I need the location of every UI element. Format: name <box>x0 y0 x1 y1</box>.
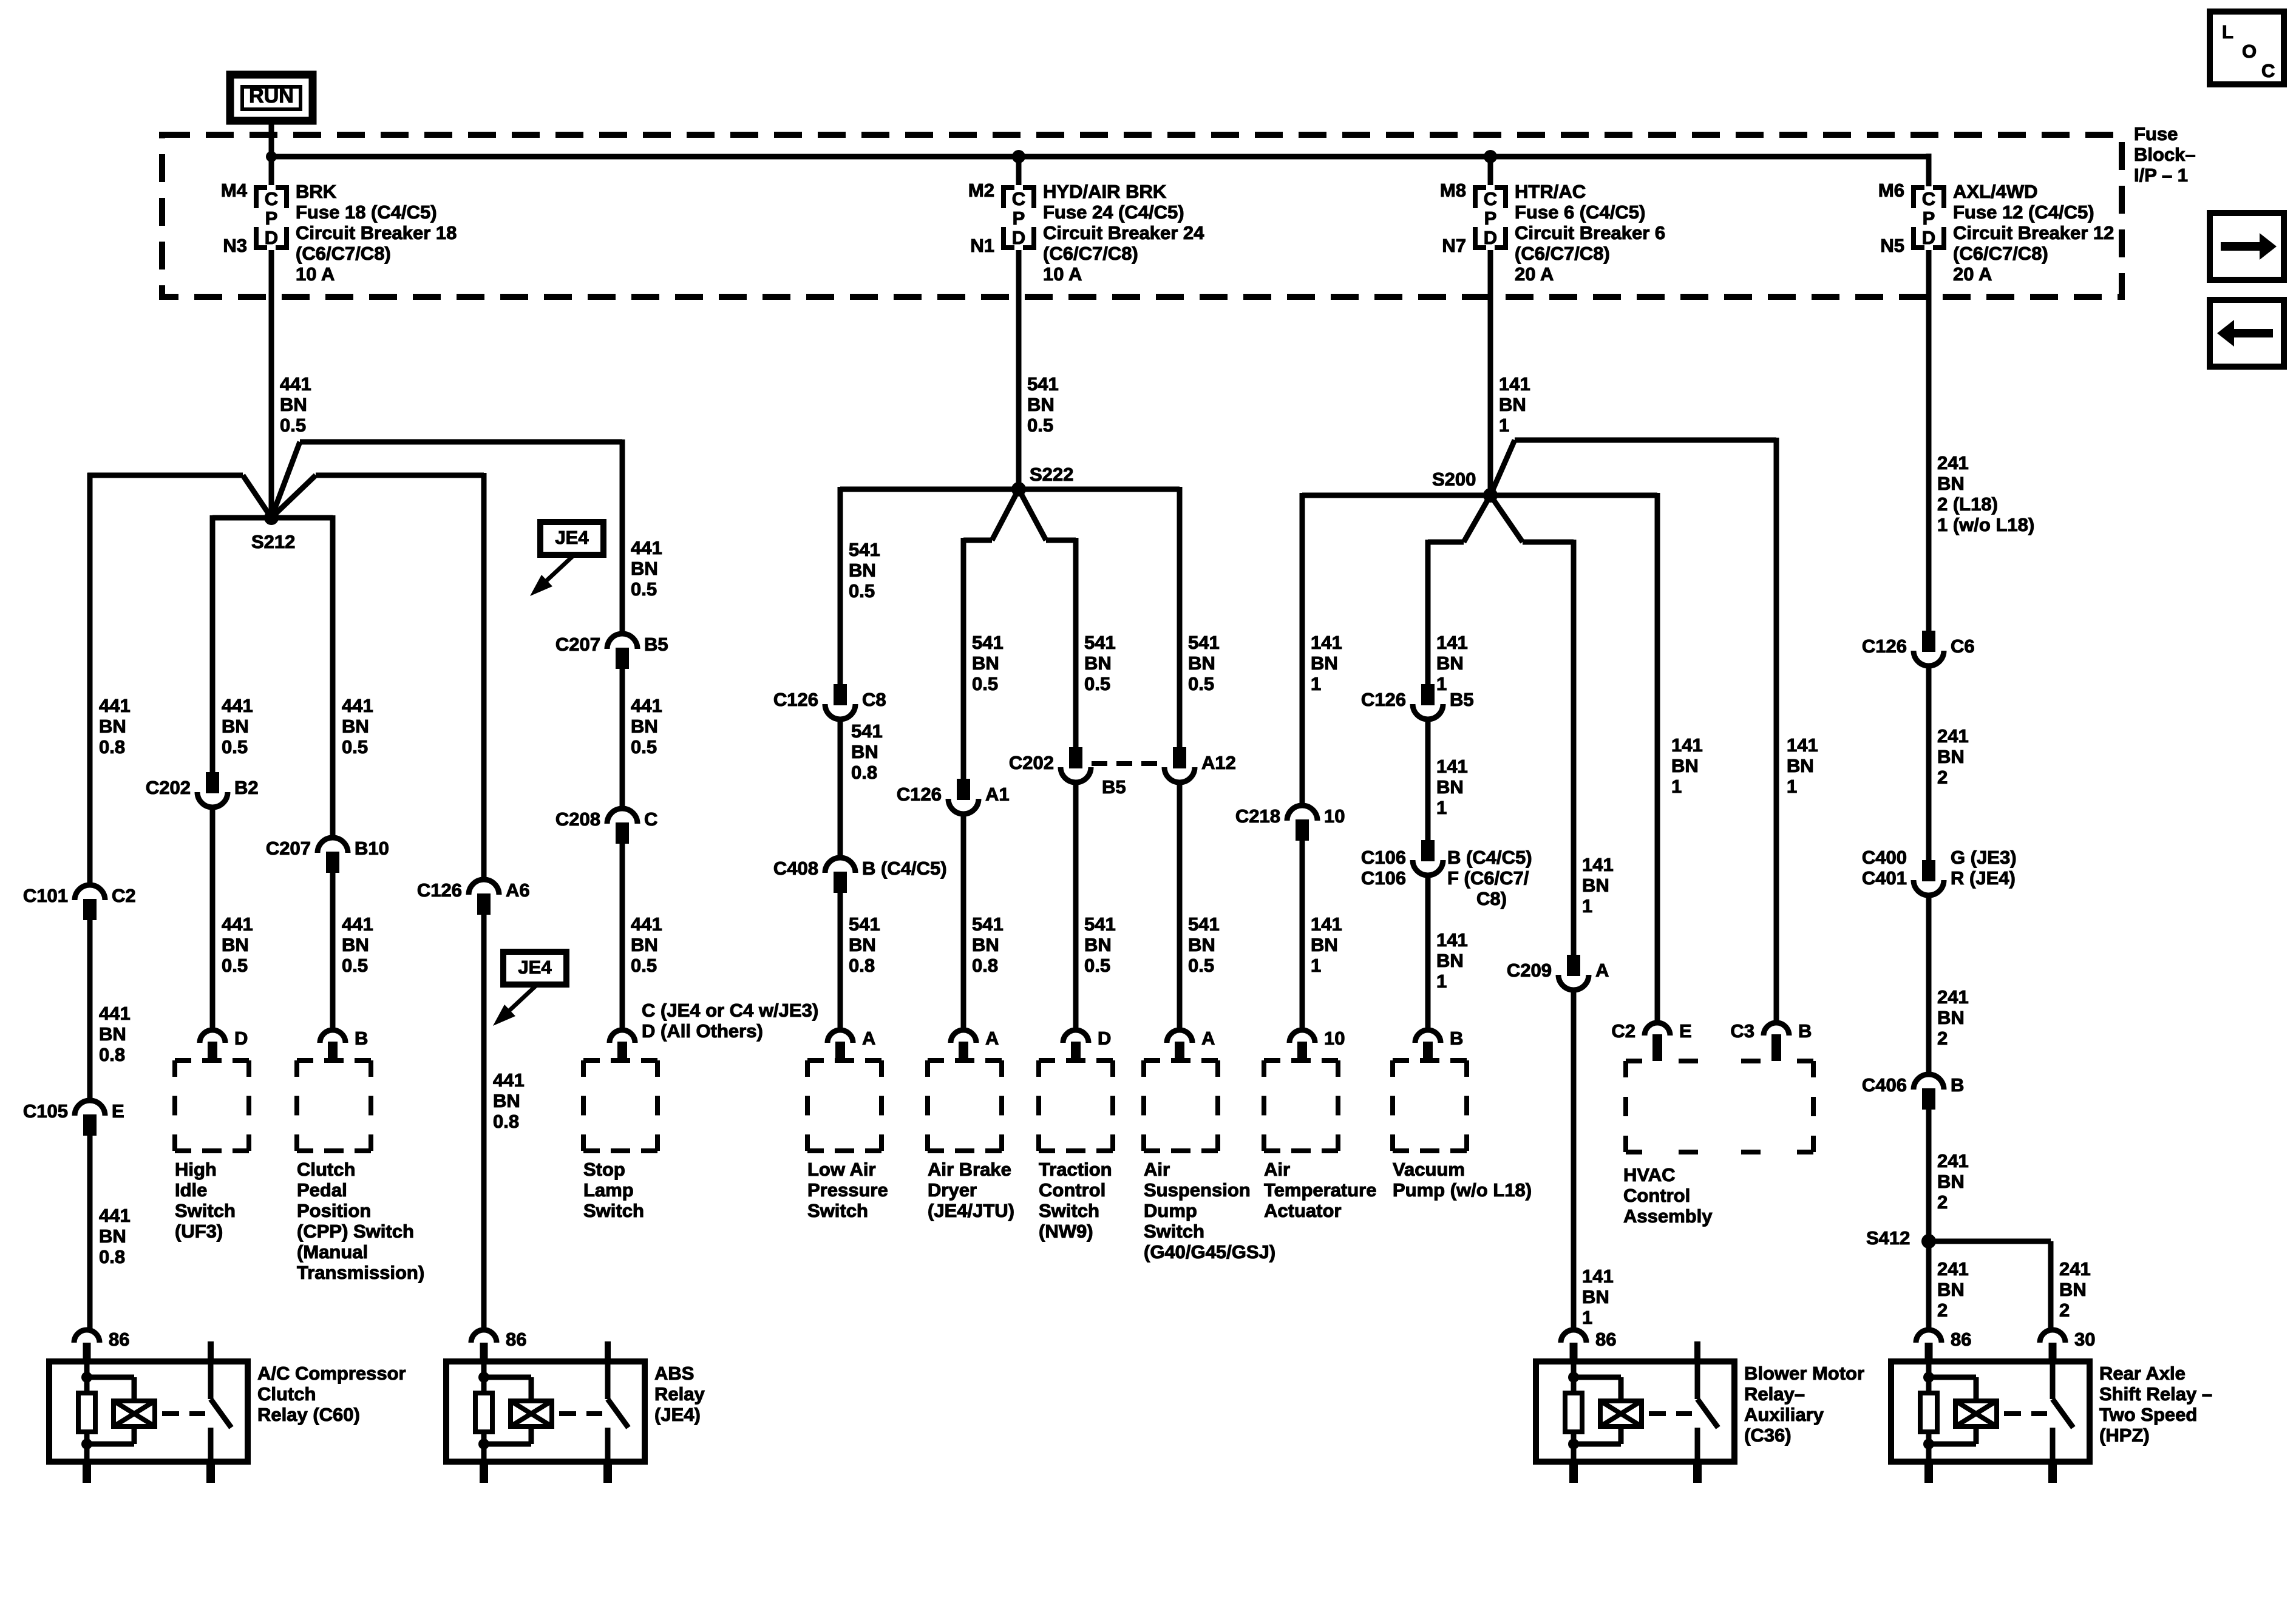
pin C/D of stop lamp switch <box>610 1030 635 1060</box>
svg-text:C101: C101 <box>23 885 68 906</box>
svg-text:Control: Control <box>1039 1179 1106 1201</box>
label S200 <box>1432 469 1476 490</box>
svg-text:M2: M2 <box>968 180 994 201</box>
svg-text:BN: BN <box>1027 394 1055 415</box>
svg-text:A1: A1 <box>985 784 1010 805</box>
svg-text:Block–: Block– <box>2134 144 2196 165</box>
svg-text:86: 86 <box>506 1329 526 1350</box>
svg-text:541: 541 <box>1188 914 1220 935</box>
Traction Control Switch dashed box <box>1039 1060 1113 1242</box>
svg-text:A6: A6 <box>506 880 530 901</box>
wire 141 BN 1 fuse6 to S200 <box>1488 259 1493 495</box>
svg-text:BN: BN <box>99 1023 126 1045</box>
svg-text:10 A: 10 A <box>1043 263 1082 285</box>
wire 441 BN 0.8 to C105 <box>87 920 93 1100</box>
svg-text:BN: BN <box>280 394 307 415</box>
splice S212 dot <box>264 510 279 525</box>
pin A of air suspension dump switch <box>1167 1028 1215 1060</box>
svg-text:BN: BN <box>1311 653 1338 674</box>
svg-text:Circuit Breaker 12: Circuit Breaker 12 <box>1953 222 2114 243</box>
svg-text:M6: M6 <box>1878 180 1904 201</box>
svg-text:C401: C401 <box>1862 867 1907 889</box>
svg-text:Switch: Switch <box>807 1200 868 1221</box>
svg-text:Lamp: Lamp <box>583 1179 634 1201</box>
svg-text:C218: C218 <box>1235 805 1280 827</box>
svg-text:1: 1 <box>1311 673 1321 694</box>
svg-text:JE4: JE4 <box>555 527 589 548</box>
svg-text:B: B <box>1798 1020 1812 1042</box>
svg-text:P: P <box>1923 208 1935 229</box>
svg-text:441: 441 <box>222 914 253 935</box>
svg-text:0.5: 0.5 <box>342 736 368 758</box>
relay Blower Motor Auxiliary (C36) <box>1536 1329 1864 1483</box>
label 141 BN 1 <box>1436 756 1468 818</box>
svg-text:Suspension: Suspension <box>1144 1179 1251 1201</box>
svg-text:141: 141 <box>1787 734 1818 756</box>
svg-text:BN: BN <box>1582 875 1609 896</box>
wire 141 BN 1 to air temp actuator <box>1300 841 1305 1030</box>
wire 241 BN 2 to S412 <box>1926 1110 1932 1241</box>
svg-text:141: 141 <box>1582 854 1614 875</box>
svg-text:541: 541 <box>1027 373 1059 395</box>
fuse block I/P dashed outline <box>162 135 2122 297</box>
Clutch Pedal Position switch dashed box <box>297 1060 424 1283</box>
svg-text:C: C <box>1484 188 1497 209</box>
svg-text:141: 141 <box>1499 373 1530 395</box>
label 141 BN 1 <box>1582 854 1614 917</box>
svg-text:C106: C106 <box>1361 867 1406 889</box>
svg-text:Fuse 6 (C4/C5): Fuse 6 (C4/C5) <box>1515 202 1645 223</box>
wire S412 branch to pin 30 <box>1929 1241 2051 1330</box>
S200 top horizontal to C3 branch <box>1515 438 1776 443</box>
label 541 BN 0.8 <box>851 720 883 783</box>
svg-text:BN: BN <box>493 1090 520 1111</box>
label 441 BN 0.5 <box>342 914 373 976</box>
svg-text:0.5: 0.5 <box>972 673 998 694</box>
svg-text:(C36): (C36) <box>1744 1425 1792 1446</box>
svg-text:541: 541 <box>849 539 880 560</box>
wire 541 BN 0.5 to A12 <box>1177 487 1183 747</box>
wire 141 BN 1 to C126 B5 <box>1425 540 1431 684</box>
wire 441 BN 0.5 to High Idle Switch <box>210 808 216 1030</box>
label S222 <box>1030 464 1073 485</box>
svg-text:Pressure: Pressure <box>807 1179 888 1201</box>
label 441 BN 0.8 <box>99 695 131 758</box>
wire 441 BN 0.5 to C207 B5 <box>620 439 625 633</box>
junction dot at HYD/AIR BRK fuse <box>1012 150 1025 163</box>
svg-text:P: P <box>265 208 278 229</box>
svg-text:0.5: 0.5 <box>222 955 248 976</box>
connector C400/C401 pins G/R <box>1862 847 2017 895</box>
svg-text:BN: BN <box>1671 755 1699 776</box>
svg-text:Clutch: Clutch <box>297 1159 355 1180</box>
svg-text:Transmission): Transmission) <box>297 1262 424 1283</box>
svg-text:L: L <box>2222 21 2233 42</box>
wire 241 BN 2 S412 to rear axle relay 86 <box>1926 1241 1932 1330</box>
svg-text:C202: C202 <box>1009 752 1054 773</box>
JE4 option tag for ABS wire <box>493 952 566 1026</box>
splice S222 dot <box>1011 482 1026 497</box>
svg-text:Rear Axle: Rear Axle <box>2099 1363 2186 1384</box>
wire 441 BN 0.5 to C207 B10 <box>330 515 336 837</box>
label 441 BN 0.5 <box>280 373 311 436</box>
S200 diagonal down-left <box>1464 495 1490 542</box>
svg-text:441: 441 <box>99 695 131 716</box>
svg-text:B5: B5 <box>1450 689 1474 710</box>
svg-text:C106: C106 <box>1361 847 1406 868</box>
svg-text:B: B <box>355 1028 368 1049</box>
svg-text:(C6/C7/C8): (C6/C7/C8) <box>1953 243 2048 264</box>
svg-text:141: 141 <box>1671 734 1703 756</box>
svg-text:BN: BN <box>631 934 658 955</box>
svg-text:Temperature: Temperature <box>1264 1179 1377 1201</box>
JE4 option tag for stop lamp wire <box>530 522 603 596</box>
wire 541 BN 0.5 to C126 A1 <box>961 538 966 779</box>
svg-text:N5: N5 <box>1880 235 1904 256</box>
label 441 BN 0.5 <box>342 695 373 758</box>
svg-text:C207: C207 <box>555 634 600 655</box>
connector C209 pin A <box>1507 955 1609 990</box>
pin D of High Idle Switch <box>200 1028 248 1060</box>
svg-text:2: 2 <box>1937 1192 1948 1213</box>
svg-text:Relay (C60): Relay (C60) <box>257 1404 360 1425</box>
svg-text:Fuse 18 (C4/C5): Fuse 18 (C4/C5) <box>296 202 437 223</box>
High Idle Switch dashed box <box>175 1060 249 1242</box>
S222 diagonal left <box>992 489 1019 540</box>
svg-text:B5: B5 <box>644 634 668 655</box>
S200 left horizontal to air temp branch <box>1302 493 1490 498</box>
svg-text:M4: M4 <box>221 180 248 201</box>
svg-text:Low Air: Low Air <box>807 1159 876 1180</box>
svg-text:1: 1 <box>1436 971 1447 992</box>
wire 441 BN 0.5 to C208 <box>620 669 625 808</box>
svg-text:BN: BN <box>2059 1279 2087 1300</box>
svg-text:A/C Compressor: A/C Compressor <box>257 1363 406 1384</box>
svg-text:Idle: Idle <box>175 1179 207 1201</box>
label 241 BN 2 <box>1937 725 1969 788</box>
connector C126 pin A1 <box>897 779 1010 814</box>
svg-text:C126: C126 <box>897 784 942 805</box>
label 541 BN 0.5 <box>972 632 1004 694</box>
S200 short right horizontal <box>1523 540 1574 545</box>
label 141 BN 1 <box>1499 373 1530 436</box>
label 541 BN 0.5 <box>1027 373 1059 436</box>
svg-text:Two Speed: Two Speed <box>2099 1404 2197 1425</box>
svg-text:241: 241 <box>1937 452 1969 473</box>
bus corner drop to AXL/4WD fuse <box>1926 154 1932 186</box>
junction dot at RUN feed <box>266 151 277 162</box>
wire 541 BN 0.8 to C408 <box>838 720 843 857</box>
svg-text:BN: BN <box>1937 1007 1965 1028</box>
wire 541 BN 0.5 to C126 C8 <box>838 487 843 684</box>
svg-text:BN: BN <box>1188 653 1215 674</box>
svg-text:C (JE4 or C4 w/JE3): C (JE4 or C4 w/JE3) <box>642 1000 818 1021</box>
svg-text:441: 441 <box>342 695 373 716</box>
pin B of HVAC assembly <box>1730 1020 1812 1061</box>
svg-text:Air Brake: Air Brake <box>928 1159 1011 1180</box>
svg-text:141: 141 <box>1582 1266 1614 1287</box>
Vacuum Pump dashed box <box>1393 1060 1532 1201</box>
svg-text:1: 1 <box>1436 797 1447 818</box>
svg-text:E: E <box>1679 1020 1692 1042</box>
svg-text:241: 241 <box>1937 1258 1969 1280</box>
svg-text:541: 541 <box>972 914 1004 935</box>
svg-text:(JE4/JTU): (JE4/JTU) <box>928 1200 1014 1221</box>
S200 diagonal down-right <box>1490 495 1523 542</box>
svg-text:86: 86 <box>109 1329 129 1350</box>
wire 441 BN 0.5 to stop lamp switch <box>620 844 625 1030</box>
svg-text:BN: BN <box>99 716 126 737</box>
svg-text:BN: BN <box>1311 934 1338 955</box>
svg-text:141: 141 <box>1436 756 1468 777</box>
connector C207 pin B5 <box>555 634 668 669</box>
svg-text:C126: C126 <box>773 689 818 710</box>
svg-text:B5: B5 <box>1102 776 1126 798</box>
svg-text:(HPZ): (HPZ) <box>2099 1425 2150 1446</box>
wire 141 BN 1 to vacuum pump <box>1425 876 1431 1030</box>
svg-text:BN: BN <box>1937 1279 1965 1300</box>
svg-text:441: 441 <box>493 1070 525 1091</box>
wire from RUN to bus <box>269 121 274 157</box>
connector C126 pin C6 <box>1862 631 1975 666</box>
relay Rear Axle Shift Two Speed (HPZ) <box>1891 1329 2212 1483</box>
svg-text:0.8: 0.8 <box>99 736 125 758</box>
connector C202 pin B2 <box>146 772 259 807</box>
pin E of HVAC assembly <box>1611 1020 1691 1061</box>
svg-text:441: 441 <box>222 695 253 716</box>
svg-text:D: D <box>1484 227 1497 248</box>
wire 141 BN 1 to C218 <box>1300 493 1305 805</box>
svg-text:0.5: 0.5 <box>1084 673 1110 694</box>
svg-text:Fuse 12 (C4/C5): Fuse 12 (C4/C5) <box>1953 202 2094 223</box>
label 241 BN 2 <box>1937 1258 1969 1321</box>
svg-text:10: 10 <box>1324 805 1345 827</box>
fuse/circuit breaker M2-N1 HYD/AIR BRK <box>968 157 1204 285</box>
svg-text:0.5: 0.5 <box>342 955 368 976</box>
svg-text:A: A <box>862 1028 875 1049</box>
label S412 <box>1866 1227 1910 1249</box>
connector C218 pin 10 <box>1235 805 1345 841</box>
svg-text:C: C <box>1922 188 1935 209</box>
label 441 BN 0.5 <box>222 914 253 976</box>
svg-text:N3: N3 <box>223 235 247 256</box>
svg-text:BN: BN <box>972 934 999 955</box>
svg-text:BN: BN <box>849 934 876 955</box>
connector C406 pin B <box>1862 1074 1965 1110</box>
svg-text:Relay: Relay <box>654 1383 705 1405</box>
svg-text:B2: B2 <box>234 777 259 798</box>
svg-text:0.5: 0.5 <box>631 736 657 758</box>
svg-text:Air: Air <box>1264 1159 1290 1180</box>
label 141 BN 1 <box>1436 632 1468 694</box>
svg-text:10: 10 <box>1324 1028 1345 1049</box>
svg-text:C207: C207 <box>266 838 311 859</box>
wire 441 BN 0.8 to A/C relay <box>87 1136 93 1330</box>
svg-text:141: 141 <box>1311 632 1342 653</box>
stop lamp pin names <box>642 1000 818 1042</box>
svg-text:541: 541 <box>1188 632 1220 653</box>
svg-text:0.8: 0.8 <box>851 762 877 783</box>
svg-text:241: 241 <box>2059 1258 2091 1280</box>
svg-text:B: B <box>1951 1074 1964 1096</box>
svg-text:C2: C2 <box>112 885 136 906</box>
svg-text:BN: BN <box>1436 653 1464 674</box>
connector C126 pin B5 <box>1361 684 1474 719</box>
svg-text:P: P <box>1013 208 1025 229</box>
svg-text:BN: BN <box>631 716 658 737</box>
wire 441 BN 0.5 to C202 B2 <box>210 515 216 772</box>
svg-text:1: 1 <box>1787 776 1797 797</box>
backward page arrow box <box>2210 300 2284 367</box>
connector C208 pin C <box>555 808 658 844</box>
svg-text:BN: BN <box>1188 934 1215 955</box>
label 441 BN 0.8 <box>99 1205 131 1267</box>
svg-text:BN: BN <box>972 653 999 674</box>
svg-text:Switch: Switch <box>583 1200 644 1221</box>
wire 441 BN 0.5 fuse18 to S212 <box>269 259 274 518</box>
svg-text:P: P <box>1484 208 1497 229</box>
svg-text:241: 241 <box>1937 725 1969 747</box>
svg-text:Control: Control <box>1623 1185 1690 1206</box>
label 441 BN 0.5 <box>222 695 253 758</box>
svg-text:Relay–: Relay– <box>1744 1383 1805 1405</box>
svg-text:BN: BN <box>222 716 249 737</box>
svg-text:86: 86 <box>1951 1329 1971 1350</box>
svg-text:Traction: Traction <box>1039 1159 1112 1180</box>
svg-text:D: D <box>234 1028 248 1049</box>
LOC locator box <box>2210 12 2284 84</box>
wire 541 BN 0.5 to traction control switch <box>1073 783 1079 1030</box>
svg-text:1: 1 <box>1582 1307 1592 1328</box>
svg-text:0.5: 0.5 <box>1027 415 1053 436</box>
dashed link C202 B5 to A12 <box>1092 761 1164 766</box>
svg-text:HVAC: HVAC <box>1623 1164 1676 1185</box>
svg-text:G (JE3): G (JE3) <box>1951 847 2017 868</box>
S212 bar <box>212 515 333 521</box>
svg-text:BN: BN <box>851 741 878 762</box>
svg-text:0.5: 0.5 <box>1188 955 1214 976</box>
fuse/circuit breaker M8-N7 HTR/AC <box>1440 157 1665 285</box>
label 441 BN 0.5 <box>631 914 662 976</box>
wire S212 far-left horizontal <box>87 473 243 478</box>
splice S412 dot <box>1921 1234 1936 1249</box>
svg-text:1: 1 <box>1499 415 1509 436</box>
connector C105 pin E <box>23 1100 124 1136</box>
svg-text:0.5: 0.5 <box>222 736 248 758</box>
connector C202 pin B5 <box>1009 747 1126 798</box>
svg-text:541: 541 <box>972 632 1004 653</box>
svg-text:BN: BN <box>1937 473 1965 494</box>
wire 141 BN 1 to HVAC C3 B <box>1774 438 1779 1023</box>
svg-text:D: D <box>1012 227 1025 248</box>
svg-text:Blower Motor: Blower Motor <box>1744 1363 1864 1384</box>
pin A of low air pressure switch <box>827 1028 875 1060</box>
svg-text:C2: C2 <box>1611 1020 1635 1042</box>
svg-text:(UF3): (UF3) <box>175 1221 223 1242</box>
pin D of traction control switch <box>1063 1028 1111 1060</box>
svg-text:0.5: 0.5 <box>849 580 875 602</box>
svg-text:S412: S412 <box>1866 1227 1910 1249</box>
fuse block name label <box>2134 123 2196 186</box>
wire 241 BN 2 to C400 <box>1926 666 1932 860</box>
svg-text:JE4: JE4 <box>518 957 552 978</box>
pin A of air brake dryer <box>951 1028 999 1060</box>
bus wire ignition feed <box>269 154 1929 160</box>
svg-text:D: D <box>1922 227 1935 248</box>
label 441 BN 0.8 <box>99 1003 131 1065</box>
svg-text:0.8: 0.8 <box>99 1246 125 1267</box>
svg-text:2: 2 <box>2059 1300 2070 1321</box>
svg-text:BN: BN <box>1084 934 1112 955</box>
svg-text:Clutch: Clutch <box>257 1383 316 1405</box>
svg-text:Circuit Breaker 24: Circuit Breaker 24 <box>1043 222 1204 243</box>
svg-text:Switch: Switch <box>1144 1221 1204 1242</box>
svg-text:C208: C208 <box>555 808 600 830</box>
S212 diagonal to A6 branch <box>271 475 316 518</box>
svg-text:N7: N7 <box>1442 235 1466 256</box>
label 541 BN 0.5 <box>1084 632 1116 694</box>
wire 141 BN 1 to blower relay <box>1571 991 1577 1330</box>
svg-text:441: 441 <box>631 695 662 716</box>
label 141 BN 1 <box>1671 734 1703 797</box>
connector C101 pin C2 <box>23 885 136 920</box>
label 541 BN 0.5 <box>1188 914 1220 976</box>
wire 141 BN 1 to C209 <box>1571 540 1577 955</box>
svg-text:HYD/AIR BRK: HYD/AIR BRK <box>1043 181 1167 202</box>
label 241 BN 2 (L18) 1 (w/o L18) <box>1937 452 2034 535</box>
svg-text:RUN: RUN <box>249 84 294 107</box>
label 541 BN 0.5 <box>849 539 880 602</box>
HVAC Control Assembly dashed box <box>1623 1061 1813 1227</box>
label 541 BN 0.8 <box>972 914 1004 976</box>
label 141 BN 1 <box>1787 734 1818 797</box>
svg-text:BN: BN <box>1787 755 1814 776</box>
svg-text:D: D <box>1098 1028 1111 1049</box>
S200 right horizontal to C2 branch <box>1490 493 1657 498</box>
svg-text:C: C <box>265 188 278 209</box>
connector C126 pin C8 <box>773 684 886 719</box>
svg-text:(C6/C7/C8): (C6/C7/C8) <box>296 243 391 264</box>
pin B of vacuum pump <box>1415 1028 1463 1060</box>
splice S200 dot <box>1483 488 1498 503</box>
svg-text:Fuse 24 (C4/C5): Fuse 24 (C4/C5) <box>1043 202 1184 223</box>
svg-text:241: 241 <box>1937 986 1969 1008</box>
svg-text:1: 1 <box>1671 776 1682 797</box>
svg-text:BN: BN <box>1937 746 1965 767</box>
svg-text:C: C <box>1012 188 1025 209</box>
svg-text:241: 241 <box>1937 1150 1969 1171</box>
svg-text:B (C4/C5): B (C4/C5) <box>1447 847 1532 868</box>
svg-text:C406: C406 <box>1862 1074 1907 1096</box>
svg-text:(G40/G45/GSJ): (G40/G45/GSJ) <box>1144 1241 1275 1263</box>
label 441 BN 0.8 <box>493 1070 525 1132</box>
svg-text:R (JE4): R (JE4) <box>1951 867 2016 889</box>
connector C408 pin B <box>773 858 947 893</box>
connector C106 pins B/F <box>1361 840 1532 909</box>
wire S212 to A6 horizontal <box>316 473 484 478</box>
svg-text:(Manual: (Manual <box>297 1241 368 1263</box>
svg-text:Dump: Dump <box>1144 1200 1197 1221</box>
svg-text:D (All Others): D (All Others) <box>642 1020 763 1042</box>
svg-text:20 A: 20 A <box>1515 263 1554 285</box>
wire 441 BN 0.8 to C101 <box>87 473 93 884</box>
svg-text:Circuit Breaker 6: Circuit Breaker 6 <box>1515 222 1665 243</box>
svg-text:Switch: Switch <box>1039 1200 1099 1221</box>
svg-text:High: High <box>175 1159 217 1180</box>
svg-text:0.5: 0.5 <box>1188 673 1214 694</box>
svg-text:541: 541 <box>849 914 880 935</box>
svg-text:BN: BN <box>99 1225 126 1247</box>
